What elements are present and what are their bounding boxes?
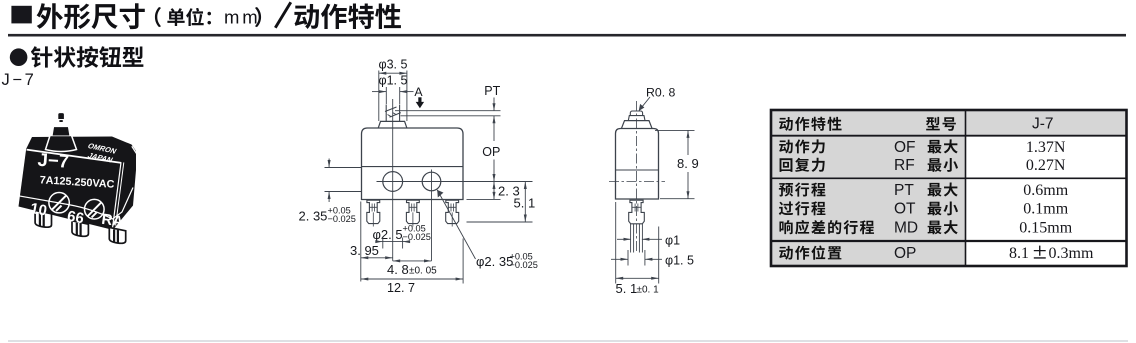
- dimension φ3.5: [379, 58, 408, 122]
- svg-text:J-7: J-7: [1032, 116, 1054, 133]
- side view: boss: [622, 121, 653, 129]
- product photo: J-7 micro switch: [19, 113, 137, 244]
- svg-text:φ1: φ1: [665, 234, 680, 248]
- svg-text:−0.025: −0.025: [403, 232, 431, 242]
- svg-text:0.27N: 0.27N: [1026, 157, 1066, 174]
- table row RF: [780, 157, 1066, 174]
- table header row: [779, 116, 1053, 133]
- dimension PT: [484, 84, 500, 141]
- table row OF: [779, 139, 1066, 156]
- side view vertical centerline: [636, 101, 638, 252]
- front view: plunger centerline: [392, 99, 394, 261]
- svg-text:RF: RF: [894, 157, 915, 174]
- side view: pin collar: [628, 116, 645, 121]
- terminal pins edge-on: [631, 224, 643, 253]
- terminal 3: [446, 200, 459, 223]
- svg-text:φ1. 5: φ1. 5: [379, 74, 408, 88]
- subsection bullet 针状按钮型: [10, 48, 28, 66]
- dimension φ1.5: [611, 250, 694, 268]
- table row OP: [779, 245, 1094, 262]
- svg-text:0.6mm: 0.6mm: [1023, 182, 1068, 199]
- svg-text:5. 1: 5. 1: [514, 196, 536, 211]
- section arrow A: [414, 85, 424, 108]
- svg-text:8. 9: 8. 9: [677, 156, 699, 171]
- dimension φ1.5: [372, 74, 414, 105]
- dimension 3.95: [350, 243, 393, 259]
- header rule: [8, 34, 1126, 37]
- svg-text:3. 95: 3. 95: [350, 243, 379, 258]
- side view: pin with dome: [630, 111, 642, 116]
- front view: switch body outline: [362, 128, 464, 200]
- dimension 4.8±0.05: [387, 259, 437, 277]
- side view: body outline: [616, 129, 659, 200]
- svg-text:PT: PT: [484, 84, 500, 98]
- dimension OP: [482, 145, 500, 182]
- table row PT: [779, 182, 1069, 199]
- left body extension line: [360, 202, 362, 282]
- svg-text:12. 7: 12. 7: [387, 281, 415, 295]
- svg-text:J−7: J−7: [37, 149, 70, 172]
- front view: pin plunger with break lines: [385, 105, 401, 122]
- leader φ2.35 to right hole: [437, 190, 538, 270]
- svg-text:−0.025: −0.025: [328, 214, 356, 224]
- svg-text:5. 1: 5. 1: [616, 281, 638, 296]
- svg-text:R0. 8: R0. 8: [646, 86, 676, 100]
- svg-text:OT: OT: [894, 201, 916, 218]
- svg-text:φ2. 35: φ2. 35: [476, 254, 513, 269]
- front view: case step line: [362, 166, 464, 168]
- svg-text:−0.025: −0.025: [510, 260, 538, 270]
- dimension 12.7: [361, 278, 463, 296]
- svg-text:66: 66: [66, 208, 85, 228]
- R0.8 label + leader: [639, 86, 676, 112]
- section title 外形尺寸（单位：mm）/动作特性: [37, 2, 401, 29]
- body bottom extension right: [467, 198, 501, 200]
- side view terminal: [629, 200, 645, 224]
- terminal bottom extension right: [467, 221, 533, 223]
- section header black square: [11, 6, 31, 24]
- svg-text:0.3mm: 0.3mm: [1049, 245, 1094, 262]
- svg-text:MD: MD: [894, 220, 918, 237]
- characteristics table: [771, 110, 1127, 266]
- svg-text:RA: RA: [100, 211, 124, 231]
- front view: boss (button base): [378, 121, 407, 127]
- model label J-7: [2, 71, 37, 89]
- table row MD: [779, 220, 1072, 237]
- dimension φ2.5 (left hole dia): [373, 224, 431, 249]
- svg-text:0.15mm: 0.15mm: [1019, 220, 1072, 237]
- svg-text:±0. 1: ±0. 1: [637, 285, 660, 296]
- svg-text:OP: OP: [482, 145, 500, 159]
- mounting hole left φ2.5: [383, 172, 403, 192]
- svg-text:φ3. 5: φ3. 5: [379, 58, 408, 72]
- mounting hole right φ2.35: [422, 172, 441, 191]
- PT reference lines: [395, 110, 501, 112]
- dimension 8.9: [655, 130, 699, 198]
- terminal 2: [406, 200, 419, 223]
- svg-text:mm: mm: [224, 7, 261, 28]
- svg-text:A: A: [414, 85, 423, 99]
- svg-text:0.1mm: 0.1mm: [1023, 201, 1068, 218]
- svg-text:4. 8: 4. 8: [387, 262, 409, 277]
- svg-text:φ1. 5: φ1. 5: [665, 254, 694, 268]
- bottom rule: [8, 340, 1128, 341]
- svg-text:2. 35: 2. 35: [299, 209, 328, 224]
- svg-text:PT: PT: [894, 182, 914, 199]
- left side extension lines: [325, 167, 362, 169]
- dimension φ1: [617, 234, 680, 248]
- svg-text:OF: OF: [894, 139, 916, 156]
- svg-text:±0. 05: ±0. 05: [409, 266, 437, 277]
- dimension 5.1±0.1: [616, 202, 660, 296]
- dimension 2.35 left: [299, 159, 356, 225]
- right hole centerline vertical: [431, 170, 433, 261]
- svg-text:1.37N: 1.37N: [1026, 139, 1066, 156]
- svg-text:10: 10: [29, 200, 48, 220]
- side view horizontal centerline: [609, 181, 665, 183]
- dimension 2.3: [493, 182, 520, 200]
- hole centerline horizontal: [377, 181, 533, 183]
- terminal 1: [367, 200, 380, 223]
- table row OT: [779, 201, 1069, 218]
- svg-text:OP: OP: [894, 245, 916, 262]
- dimension 5.1: [514, 182, 536, 223]
- svg-text:φ2. 5: φ2. 5: [373, 227, 403, 242]
- side view: case step line: [616, 169, 659, 171]
- svg-text:J−7: J−7: [2, 71, 37, 89]
- svg-text:8.1: 8.1: [1009, 245, 1029, 262]
- right body extension line: [462, 239, 464, 284]
